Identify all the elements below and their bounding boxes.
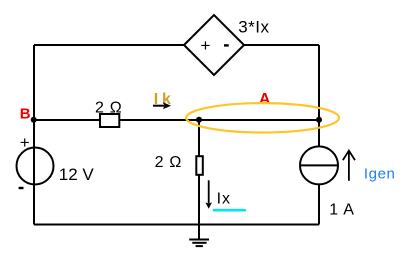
dependent source U1 diamond 3*Ix [184,15,244,75]
svg-text:A: A [259,91,271,108]
wire bottom horizontal [34,224,319,226]
arrow Igen up [343,151,355,181]
svg-text:1 A: 1 A [329,202,355,219]
svg-text:2 Ω: 2 Ω [155,154,182,171]
wire left vertical (through voltage source) [33,45,35,225]
svg-text:B: B [20,105,31,122]
ground [189,240,209,247]
node dot middle [196,117,202,123]
svg-text:+: + [201,36,211,55]
annotation ellipse around node A [186,103,339,132]
arrow Ik right [153,105,165,107]
U1 minus sign [224,44,229,46]
wire middle vertical to ground [198,120,200,240]
arrow Ix down along R2 [208,180,210,203]
voltage source V1 circle [17,148,54,185]
svg-text:12 V: 12 V [59,165,95,184]
current source I1 circle [300,146,338,184]
svg-text:Igen: Igen [364,166,396,183]
svg-text:2 Ω: 2 Ω [95,100,122,117]
svg-text:Ix: Ix [217,190,231,207]
V1 minus sign [19,187,24,189]
wire middle horizontal node B to right [34,119,319,121]
svg-text:3*Ix: 3*Ix [238,17,269,36]
node dot right [316,117,322,123]
cyan underline annotation [214,209,245,212]
wire top from left corner to right corner [34,44,319,46]
resistor R1 2 ohm horizontal [100,114,119,127]
I1 chord line [300,164,338,166]
wire right vertical [318,45,320,225]
node B dot [31,117,37,123]
svg-text:+: + [20,133,30,152]
resistor R2 2 ohm vertical [196,156,203,175]
